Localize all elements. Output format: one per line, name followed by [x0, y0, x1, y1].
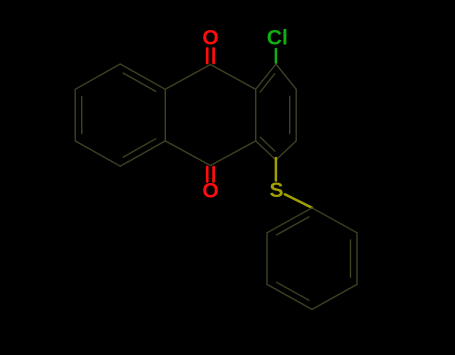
wire aromatic tick right ring top-left edge [260, 74, 275, 92]
wire bond C8a-C10a (fused edge left/middle ring) [164, 89, 166, 141]
wire aromatic tick left ring top-right edge [123, 73, 156, 91]
wire aromatic tick phenyl bottom-left edge [277, 282, 309, 300]
wire bond C4-S [275, 158, 278, 181]
wire bond C1-Cl [275, 49, 278, 63]
wire bond C3-C4 (right ring bottom-right edge) [276, 141, 296, 160]
wire C9=O double bond right line [212, 49, 215, 64]
wire aromatic tick phenyl right edge [350, 240, 352, 277]
wire bond phenyl left edge [266, 233, 268, 285]
wire bond C4-C4a (right ring bottom-left edge) [256, 141, 276, 160]
wire aromatic tick right ring bottom-left edge [260, 137, 275, 151]
wire bond C10a-C5 (left ring bottom-right edge) [120, 141, 165, 166]
wire bond C8a-C8 (left ring top-right edge) [120, 64, 165, 89]
svg-text:O: O [202, 180, 218, 203]
wire C10=O double bond right line [212, 167, 215, 182]
wire bond C5-C6 (left ring bottom-left edge) [75, 141, 120, 166]
wire bond S-phenyl ipso [285, 194, 312, 208]
wire C9=O double bond left line [206, 49, 209, 64]
wire bond phenyl bottom-left edge [267, 284, 312, 309]
wire bond C10-C4a (middle ring bottom-right edge) [210, 141, 255, 166]
svg-text:O: O [202, 27, 218, 50]
svg-text:S: S [269, 179, 283, 202]
wire bond C7-C8 (left ring top-left edge) [75, 64, 120, 89]
wire bond C9a-C1 (right ring top-left edge) [256, 64, 276, 89]
wire bond C9-C9a (middle ring top-right edge) [210, 65, 255, 90]
wire bond C1-C2 (right ring top-right edge) [276, 64, 296, 89]
wire aromatic tick left ring left edge [81, 97, 83, 134]
wire bond phenyl bottom-right edge [312, 284, 357, 309]
wire bond C10-C10a (middle ring bottom-left edge) [165, 141, 210, 166]
wire bond phenyl right edge [356, 233, 358, 285]
wire bond C9-C8a (middle ring top-left edge) [165, 65, 210, 90]
svg-text:Cl: Cl [267, 27, 288, 50]
wire bond phenyl top-left edge [267, 208, 312, 233]
wire aromatic tick left ring bottom-right edge [123, 139, 156, 157]
wire aromatic tick phenyl top-left edge [277, 217, 309, 235]
wire aromatic tick right ring right edge [289, 97, 291, 134]
wire bond C6-C7 (left ring left edge) [74, 89, 76, 141]
wire bond C2-C3 (right ring right edge) [295, 89, 297, 141]
wire bond ipso-ortho (phenyl top-right edge) [312, 208, 357, 233]
wire C10=O double bond left line [206, 167, 209, 182]
wire bond C9a-C4a (fused edge middle/right ring) [255, 89, 257, 141]
